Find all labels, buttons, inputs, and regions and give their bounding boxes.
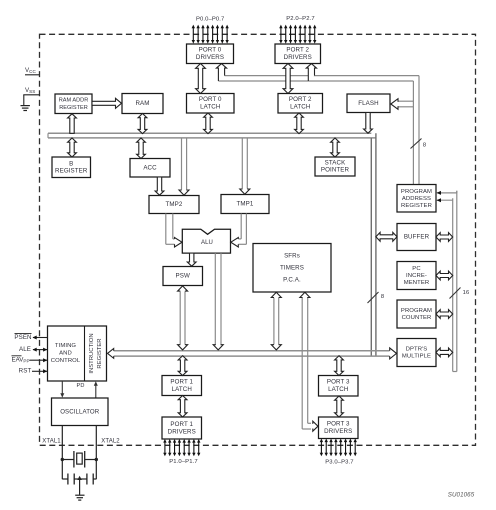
arrow psw to lower bus (double) <box>178 286 188 350</box>
arrow port2 drivers to latch <box>283 64 293 94</box>
ground symbol <box>75 495 84 500</box>
svg-text:REGISTER: REGISTER <box>59 105 88 111</box>
svg-text:PORT 3: PORT 3 <box>327 379 350 386</box>
wire elbow down at right <box>413 76 419 185</box>
svg-text:BUFFER: BUFFER <box>404 234 430 241</box>
xtal2 label <box>101 439 120 445</box>
main bus right vertical segment <box>371 133 376 356</box>
port 2 latch box <box>278 94 323 114</box>
pin ALE <box>19 346 48 353</box>
port 3 pin arrows <box>320 439 357 457</box>
svg-text:LATCH: LATCH <box>172 386 192 393</box>
svg-text:P3.0–P3.7: P3.0–P3.7 <box>325 460 353 466</box>
svg-text:PORT 3: PORT 3 <box>327 421 350 428</box>
arrow flash down to bus <box>364 113 373 134</box>
arrow port0 drivers to latch <box>196 64 206 94</box>
sfrs timers pca box <box>253 244 331 293</box>
arrow acc to tmp2 <box>155 177 164 195</box>
capacitor C1 <box>62 474 79 485</box>
main internal bus (upper) <box>48 133 376 138</box>
svg-text:TMP2: TMP2 <box>166 201 183 208</box>
arrow dptr to right bus <box>436 348 453 357</box>
arrow bus up into ram addr register <box>68 114 77 134</box>
svg-text:PD: PD <box>77 383 85 389</box>
svg-text:TIMING: TIMING <box>55 343 77 349</box>
vss label <box>25 87 35 94</box>
arrow ram to bus <box>138 114 147 134</box>
svg-text:8: 8 <box>381 294 384 300</box>
capacitor C2 <box>80 474 97 485</box>
wire tmp2 to alu (elbow right) <box>166 214 182 248</box>
arrow sfrs to lower bus (double) <box>271 292 281 350</box>
svg-text:REGISTER: REGISTER <box>55 167 88 174</box>
wire tmp1 to alu (elbow left) <box>231 214 247 248</box>
vss ground symbol <box>21 106 30 111</box>
stack pointer box <box>315 157 355 176</box>
pin EA/Vpp <box>12 356 48 364</box>
dptr's multiple box <box>397 339 436 367</box>
svg-text:P2.0–P2.7: P2.0–P2.7 <box>286 16 314 22</box>
junction arrow <box>77 476 81 480</box>
svg-text:LATCH: LATCH <box>328 386 348 393</box>
wire timing to oscillator <box>60 381 64 398</box>
svg-text:MENTER: MENTER <box>404 280 429 286</box>
arrow lower bus to port3 latch <box>335 356 344 376</box>
arrow port1 latch to drivers <box>178 396 187 418</box>
svg-text:XTAL1: XTAL1 <box>42 439 61 445</box>
svg-text:PROGRAM: PROGRAM <box>401 189 432 195</box>
port 3 pin label <box>325 460 353 466</box>
flash box <box>347 94 390 113</box>
label 8 right <box>381 294 384 300</box>
address wire band from port drivers to flash <box>218 76 419 81</box>
vcc lead <box>25 74 40 76</box>
ram addr register box <box>55 94 92 114</box>
svg-text:PORT 2: PORT 2 <box>286 47 309 54</box>
pd label <box>77 383 85 389</box>
arrow ram addr register to ram <box>92 98 122 108</box>
vss lead <box>23 95 39 106</box>
wire sfrs down to port3 drivers <box>300 292 318 431</box>
junction dot xtal2 <box>95 458 98 461</box>
arrow bus to stack pointer <box>331 138 340 157</box>
xtal1 label <box>42 439 61 445</box>
svg-text:PORT 1: PORT 1 <box>170 378 193 385</box>
svg-text:DRIVERS: DRIVERS <box>196 54 224 61</box>
port 3 latch box <box>319 376 359 397</box>
svg-text:REGISTER: REGISTER <box>97 338 103 368</box>
svg-text:DRIVERS: DRIVERS <box>168 428 196 435</box>
lower internal bus <box>114 351 390 356</box>
svg-text:P.C.A.: P.C.A. <box>283 276 301 283</box>
junction dot xtal1 <box>61 458 64 461</box>
svg-text:ADDRESS: ADDRESS <box>402 196 431 202</box>
svg-text:ALE: ALE <box>19 346 31 353</box>
pc incrementer box <box>397 262 436 290</box>
ground lead <box>79 479 81 495</box>
svg-text:RST: RST <box>19 368 32 375</box>
svg-text:PROGRAM: PROGRAM <box>401 308 432 314</box>
svg-text:PORT 2: PORT 2 <box>289 96 312 103</box>
svg-text:P0.0–P0.7: P0.0–P0.7 <box>196 17 224 23</box>
arrow bus to acc <box>137 138 146 159</box>
program counter box <box>397 300 436 328</box>
port 0 latch box <box>187 94 235 114</box>
svg-text:DRIVERS: DRIVERS <box>324 428 352 435</box>
tmp2 box <box>149 196 199 214</box>
port 0 pin arrows <box>192 25 229 44</box>
svg-text:RAM ADDR: RAM ADDR <box>59 98 89 104</box>
wire right bus into PAR (inner) <box>437 198 453 202</box>
svg-text:MULTIPLE: MULTIPLE <box>402 354 431 360</box>
svg-text:PORT 1: PORT 1 <box>170 421 193 428</box>
wire oscillator to instruction register <box>94 381 98 398</box>
port 0 drivers box <box>187 44 234 64</box>
tmp1 box <box>221 195 269 214</box>
port 1 pin label <box>169 459 197 465</box>
svg-text:OSCILLATOR: OSCILLATOR <box>60 408 100 415</box>
svg-text:CONTROL: CONTROL <box>51 358 81 364</box>
xtal1 lead <box>61 426 63 480</box>
timing and control / instruction register box <box>48 326 107 381</box>
bus width slash 8 (flash feed) <box>411 139 422 149</box>
arrow program counter to right bus <box>436 310 453 319</box>
svg-text:P1.0–P1.7: P1.0–P1.7 <box>169 459 197 465</box>
arrow port3 latch to drivers <box>335 396 344 417</box>
port 2 pin label <box>286 16 314 22</box>
svg-text:STACK: STACK <box>325 160 346 167</box>
svg-text:PC: PC <box>412 266 421 272</box>
svg-text:PORT 0: PORT 0 <box>199 96 222 103</box>
port 2 pin arrows <box>279 25 316 44</box>
program address register box <box>397 185 436 213</box>
branch arrow up into port 0 drivers <box>216 64 226 81</box>
branch arrow up into port 2 drivers <box>306 64 316 81</box>
svg-text:8: 8 <box>423 143 426 149</box>
acc box <box>130 159 170 178</box>
crystal Y1 <box>62 451 96 468</box>
svg-text:ALU: ALU <box>201 240 213 246</box>
arrow lower bus to port1 latch <box>178 356 187 376</box>
wire bus down to tmp1 <box>240 138 250 194</box>
port 0 pin label <box>196 17 224 23</box>
wire right bus into PAR (outer) <box>437 191 457 195</box>
pin PSEN <box>14 334 47 341</box>
psw box <box>163 267 203 286</box>
svg-text:PORT 0: PORT 0 <box>199 47 222 54</box>
bus width slash 8 (alu bus) <box>368 292 379 303</box>
port 1 pin arrows <box>163 439 200 456</box>
svg-text:RAM: RAM <box>135 100 149 107</box>
svg-text:LATCH: LATCH <box>200 104 220 111</box>
svg-text:INSTRUCTION: INSTRUCTION <box>89 333 95 373</box>
svg-text:LATCH: LATCH <box>290 104 310 111</box>
port 2 drivers box <box>275 44 321 64</box>
dashed chip boundary <box>40 34 476 445</box>
arrow alu to psw <box>187 253 196 266</box>
arrow bus to b register <box>68 138 77 157</box>
svg-text:DPTR'S: DPTR'S <box>406 346 428 352</box>
right program bus vertical pair <box>453 191 457 372</box>
svg-text:PSEN: PSEN <box>14 334 31 341</box>
vcc label <box>25 67 36 74</box>
alu box <box>182 229 230 253</box>
arrow port0 latch to bus <box>204 113 213 134</box>
arrow buffer to right bus <box>436 233 453 242</box>
svg-text:XTAL2: XTAL2 <box>101 439 120 445</box>
pin RST <box>19 368 48 375</box>
svg-text:INCRE-: INCRE- <box>406 273 427 279</box>
svg-text:16: 16 <box>463 290 470 296</box>
svg-text:SU01065: SU01065 <box>448 492 475 499</box>
lower bus arrowhead into instruction register <box>108 349 114 359</box>
svg-text:SFRs: SFRs <box>284 252 300 259</box>
xtal2 lead <box>95 426 97 480</box>
wire bus down to tmp2 <box>179 138 189 195</box>
b register box <box>52 157 91 178</box>
ram box <box>122 94 163 114</box>
port 1 latch box <box>162 376 202 396</box>
label 8 <box>423 143 426 149</box>
figure code <box>448 492 475 499</box>
svg-text:ACC: ACC <box>143 164 157 171</box>
svg-text:DRIVERS: DRIVERS <box>284 54 312 61</box>
arrow buffer to internal bus <box>376 232 397 241</box>
wire alu down to lower bus <box>213 253 223 350</box>
branch arrow left into flash <box>391 99 414 110</box>
svg-text:B: B <box>69 160 73 167</box>
port 1 drivers box <box>162 417 202 439</box>
buffer box <box>397 224 436 251</box>
svg-text:COUNTER: COUNTER <box>402 315 432 321</box>
lower bus arrowhead into DPTR's multiple <box>390 348 397 359</box>
arrow port2 latch to bus <box>295 113 304 134</box>
svg-text:AND: AND <box>59 351 72 357</box>
oscillator box <box>52 398 109 426</box>
svg-text:FLASH: FLASH <box>358 100 378 107</box>
label 16 <box>463 290 470 296</box>
svg-text:PSW: PSW <box>176 273 190 280</box>
svg-text:POINTER: POINTER <box>321 167 350 174</box>
svg-text:REGISTER: REGISTER <box>401 203 432 209</box>
svg-text:TIMERS: TIMERS <box>280 264 304 271</box>
svg-text:TMP1: TMP1 <box>237 201 254 208</box>
bus width slash 16 <box>450 288 461 299</box>
arrow pc incrementer to right bus <box>436 271 453 280</box>
port 3 drivers box <box>319 417 359 439</box>
